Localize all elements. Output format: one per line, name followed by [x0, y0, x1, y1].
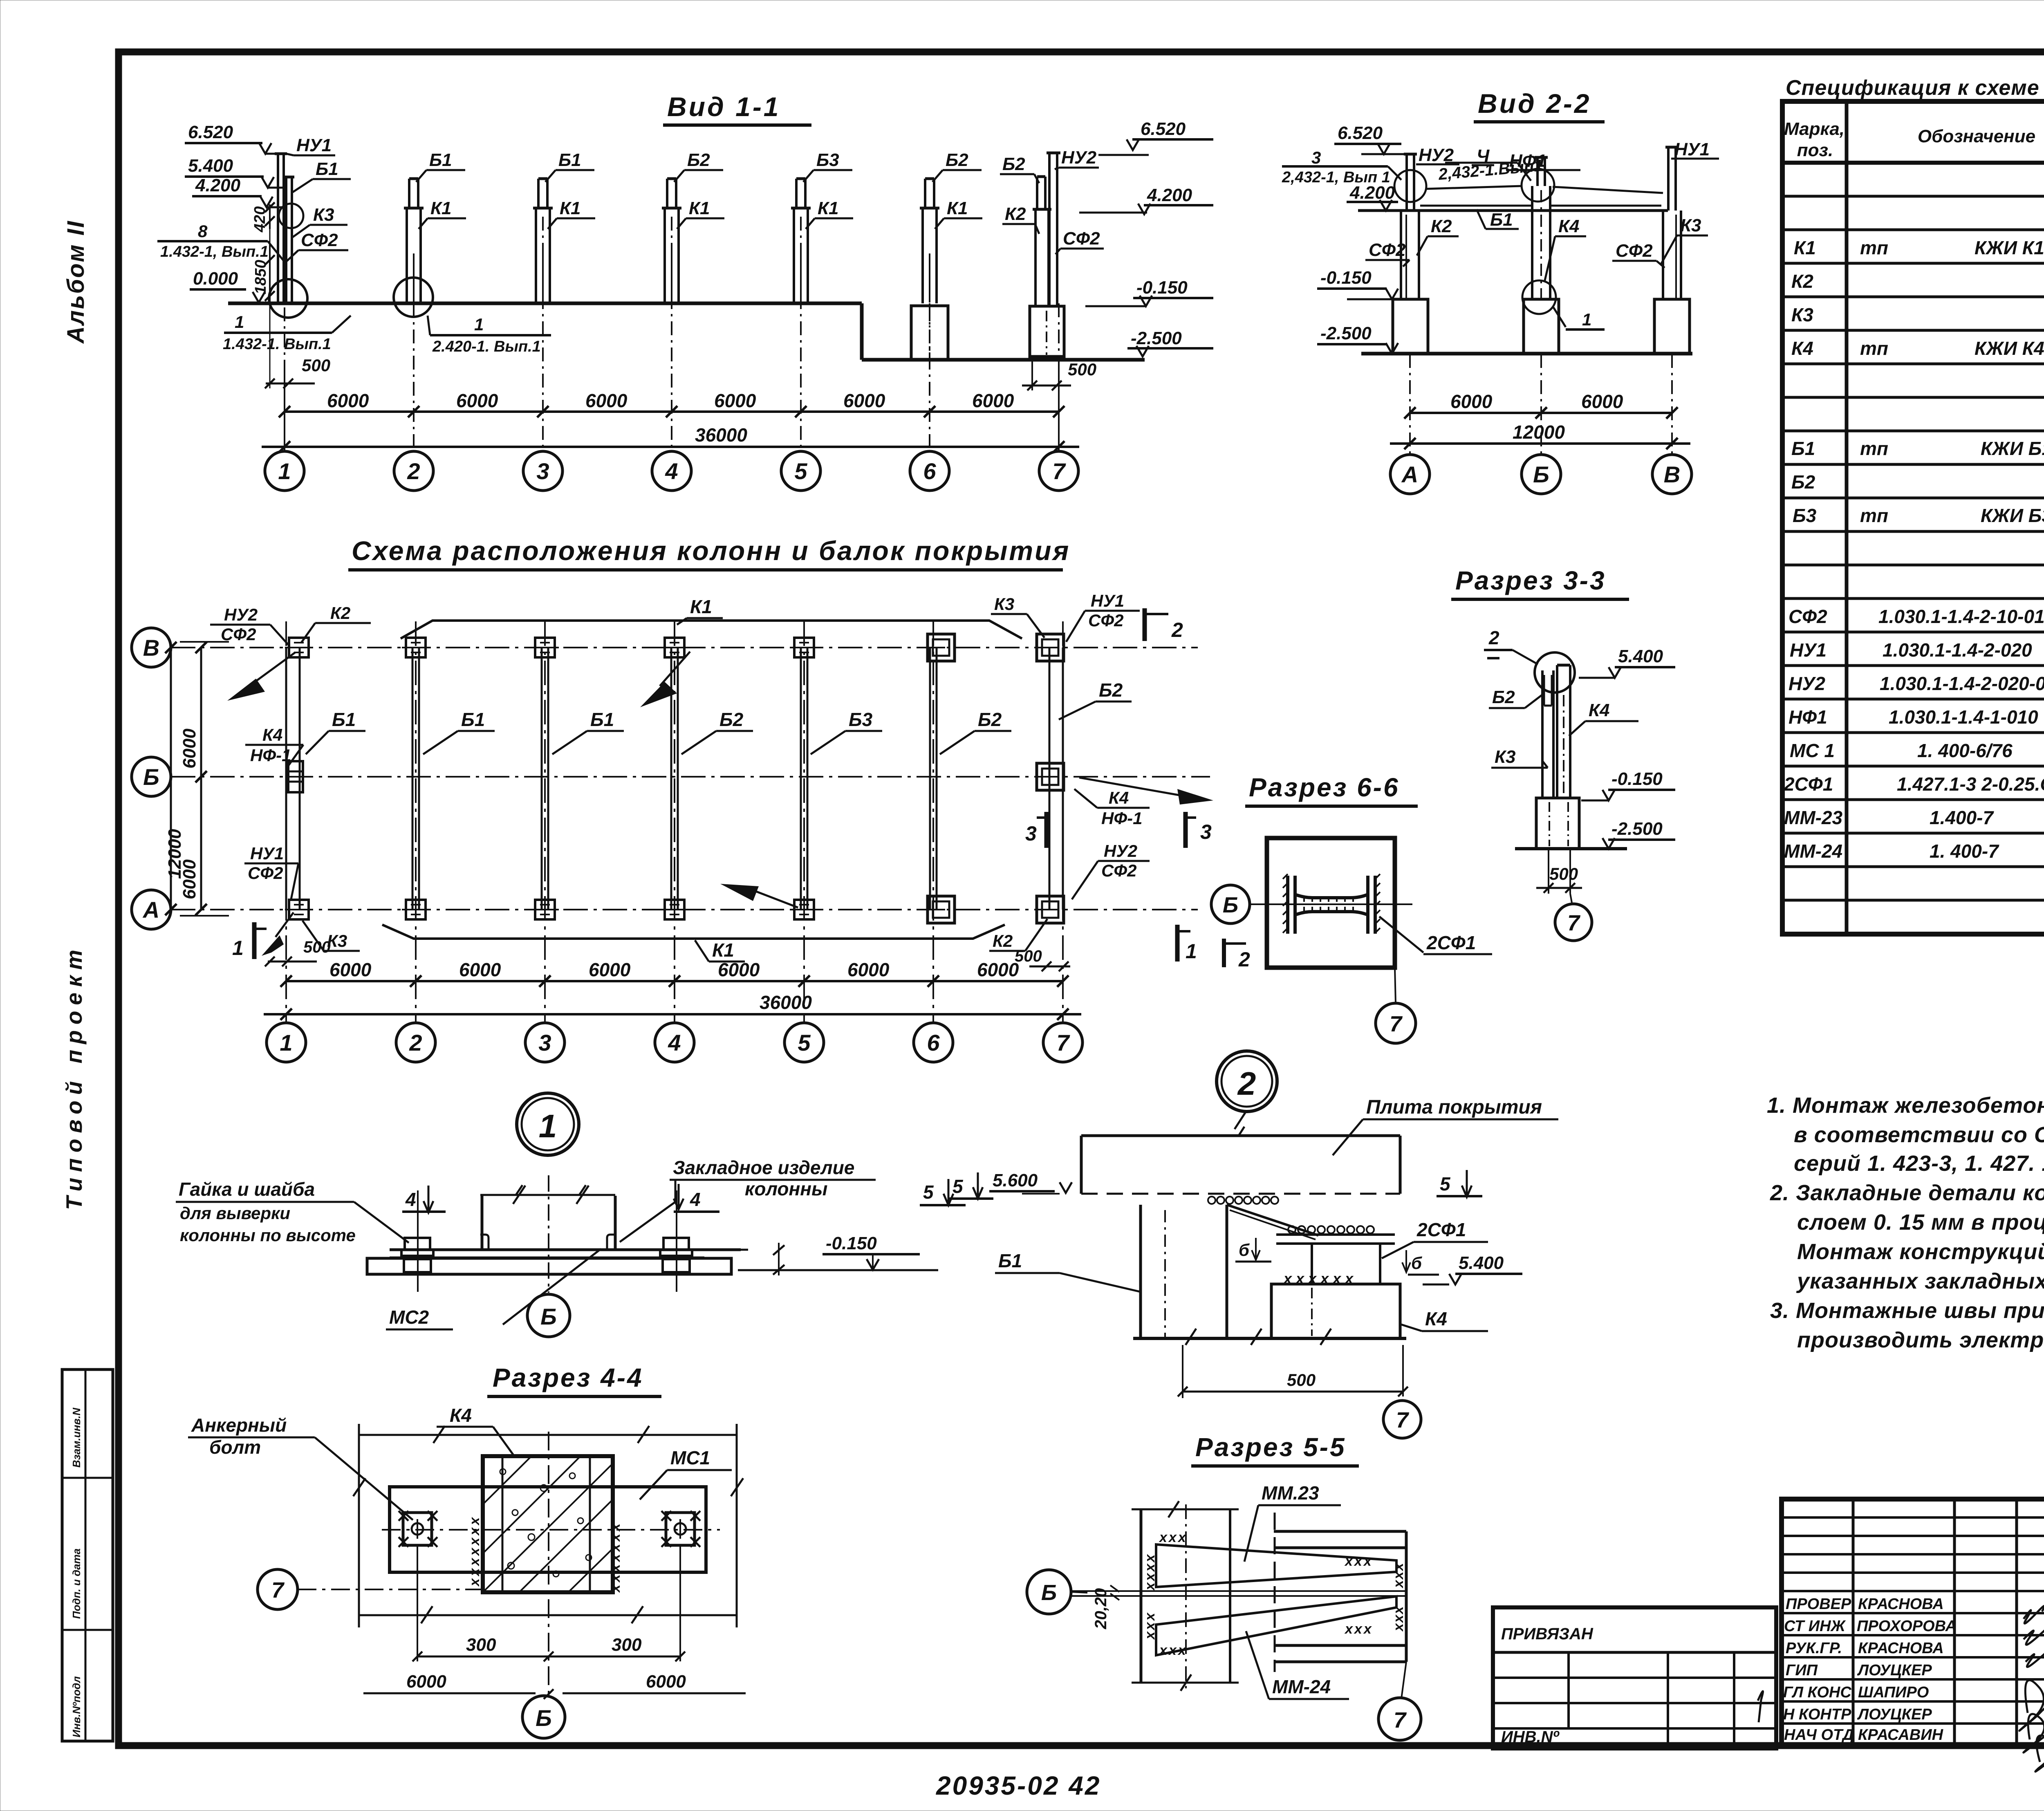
base line	[1133, 1337, 1406, 1340]
grid circles	[1390, 455, 1692, 494]
7 circle + leader	[258, 1569, 298, 1609]
svg-text:НУ1: НУ1	[1674, 139, 1710, 159]
svg-text:Б3: Б3	[849, 709, 873, 730]
SPEC TABLE	[1782, 76, 2044, 934]
svg-text:Б2: Б2	[687, 150, 710, 170]
weld circles on plate	[1288, 1226, 1374, 1233]
svg-text:2СФ1: 2СФ1	[1784, 773, 1833, 795]
signature texts	[1783, 1596, 1957, 1744]
NODE 1	[176, 1093, 966, 1337]
ground line upper	[228, 302, 862, 305]
svg-text:Б3: Б3	[816, 150, 839, 170]
svg-text:ММ-24: ММ-24	[1272, 1676, 1331, 1697]
svg-text:НУ1: НУ1	[1091, 591, 1124, 610]
VIEW 2-2	[1282, 88, 1719, 494]
svg-text:1: 1	[232, 937, 244, 959]
svg-text:СФ2: СФ2	[221, 625, 256, 644]
svg-text:Б: Б	[536, 1705, 552, 1731]
Б circle	[522, 1696, 565, 1738]
left dims	[200, 648, 202, 910]
svg-text:В: В	[143, 635, 159, 661]
svg-text:КЖИ К1: КЖИ К1	[1975, 237, 2044, 258]
node circle col1 upper	[279, 204, 303, 228]
svg-text:СФ2: СФ2	[1101, 861, 1136, 880]
svg-text:300: 300	[612, 1635, 642, 1655]
svg-text:в соответствии со СНиП Ш-16-8: в соответствии со СНиП Ш-16-80 , указани…	[1794, 1123, 2044, 1147]
svg-text:К3: К3	[1791, 304, 1813, 325]
svg-text:6000: 6000	[847, 959, 890, 980]
svg-text:СФ2: СФ2	[1369, 240, 1406, 260]
svg-text:1: 1	[539, 1108, 557, 1144]
svg-text:К3: К3	[1495, 747, 1516, 767]
svg-text:6000: 6000	[718, 959, 760, 980]
body rows	[1784, 235, 2044, 862]
svg-text:6.520: 6.520	[1141, 119, 1186, 139]
ground step	[860, 303, 864, 360]
svg-text:1. Монтаж железобетонных конс: 1. Монтаж железобетонных конструкций осу…	[1767, 1093, 2044, 1118]
pedestals	[1393, 299, 1428, 354]
svg-text:Б: Б	[1533, 462, 1549, 487]
column Б (К4)	[1532, 157, 1550, 299]
svg-text:1.030.1-1.4-1-010: 1.030.1-1.4-1-010	[1889, 706, 2038, 728]
svg-text:Б2: Б2	[719, 709, 744, 730]
svg-text:Схема расположения колонн и: Схема расположения колонн и балок покрыт…	[352, 536, 1070, 566]
7 circle	[1383, 1401, 1421, 1438]
svg-text:xxx: xxx	[1142, 1611, 1158, 1640]
svg-text:Б1: Б1	[1791, 438, 1815, 459]
labels top-left	[221, 603, 350, 644]
svg-text:500: 500	[303, 938, 331, 956]
svg-text:ММ-24: ММ-24	[1784, 841, 1842, 862]
svg-text:серий 1. 423-3, 1. 427. 1-: серий 1. 423-3, 1. 427. 1-3	[1794, 1151, 2044, 1176]
box	[1267, 838, 1395, 968]
svg-text:1.432-1, Вып.1: 1.432-1, Вып.1	[160, 243, 269, 260]
column strip	[1140, 1509, 1143, 1683]
node marker 1 (double circle)	[517, 1093, 579, 1155]
MC1 plate	[390, 1487, 706, 1572]
svg-text:-0.150: -0.150	[1611, 769, 1663, 789]
node marker 2 (double circle)	[1217, 1051, 1277, 1112]
column В (К3)	[1663, 147, 1681, 299]
svg-text:МС1: МС1	[670, 1447, 710, 1468]
fake signatures	[2019, 1606, 2044, 1772]
svg-text:тп: тп	[1860, 505, 1888, 526]
section markers	[232, 608, 1250, 971]
svg-text:7: 7	[1056, 1030, 1070, 1056]
svg-text:ГЛ КОНС.: ГЛ КОНС.	[1783, 1684, 1856, 1701]
svg-text:3: 3	[1025, 822, 1037, 845]
svg-text:Разрез 4-4: Разрез 4-4	[493, 1363, 643, 1392]
dims	[1410, 412, 1672, 414]
xxx edge marks	[467, 1515, 623, 1593]
svg-text:болт: болт	[209, 1437, 261, 1458]
svg-text:-2.500: -2.500	[1131, 328, 1182, 348]
svg-text:3: 3	[1311, 148, 1321, 167]
slab	[1081, 1134, 1400, 1137]
svg-text:1: 1	[1582, 310, 1591, 329]
MM-23 trapezoid (upper)	[1156, 1544, 1396, 1587]
svg-text:2: 2	[1171, 619, 1183, 641]
svg-text:12000: 12000	[1513, 421, 1565, 443]
svg-text:6000: 6000	[327, 390, 369, 411]
svg-text:К1: К1	[560, 198, 581, 218]
svg-text:К2: К2	[993, 931, 1013, 950]
svg-text:Подп. и дата: Подп. и дата	[70, 1549, 83, 1619]
svg-text:СФ2: СФ2	[1088, 611, 1123, 630]
svg-text:Б: Б	[1223, 893, 1238, 917]
7 circle	[1395, 968, 1396, 1003]
svg-text:СФ2: СФ2	[301, 230, 338, 250]
column 7 (К2 + НУ2 post)	[1033, 153, 1060, 306]
svg-text:К3: К3	[994, 594, 1014, 614]
hatch ticks on flanges	[1283, 874, 1380, 933]
svg-text:НФ1: НФ1	[1788, 706, 1827, 728]
svg-text:1.030.1-1.4-2-020: 1.030.1-1.4-2-020	[1883, 639, 2032, 661]
svg-text:Типовой проект: Типовой проект	[61, 944, 87, 1210]
column outline with break marks	[481, 1196, 484, 1250]
svg-text:12000: 12000	[165, 829, 185, 879]
svg-text:6000: 6000	[646, 1672, 686, 1692]
svg-text:б: б	[1411, 1253, 1422, 1273]
svg-text:3. Монтажные швы принимать: 3. Монтажные швы принимать hш = 6 мм. Св…	[1770, 1298, 2044, 1323]
ground line lower	[862, 358, 1145, 362]
svg-text:Закладное изделие: Закладное изделие	[673, 1157, 854, 1178]
svg-text:6000: 6000	[1581, 391, 1623, 412]
svg-text:ПРИВЯЗАН: ПРИВЯЗАН	[1501, 1625, 1594, 1643]
column К1 axis2	[404, 179, 424, 303]
node circle col1 lower	[269, 279, 307, 318]
grid axis vertical dash-dot lines	[286, 621, 1063, 1022]
svg-text:Инв.Nºподл: Инв.Nºподл	[70, 1676, 83, 1737]
svg-text:2СФ1: 2СФ1	[1416, 1219, 1466, 1240]
svg-text:Б2: Б2	[1099, 679, 1123, 701]
header texts	[1784, 119, 2044, 161]
svg-text:К4: К4	[1791, 338, 1813, 359]
axis dash-dot lines	[285, 217, 1059, 450]
svg-text:20935-02 42: 20935-02 42	[936, 1771, 1101, 1800]
grid circles	[267, 1023, 1083, 1062]
svg-text:5: 5	[953, 1176, 964, 1197]
svg-text:для выверки: для выверки	[180, 1204, 290, 1223]
svg-text:Б2: Б2	[1791, 471, 1815, 493]
svg-text:К1: К1	[818, 198, 839, 218]
svg-text:НУ2: НУ2	[1788, 673, 1825, 694]
svg-text:Б1: Б1	[429, 150, 452, 170]
axis lines to circles	[1410, 354, 1672, 454]
left part: privyazan	[1493, 1607, 1776, 1748]
svg-text:6000: 6000	[1450, 391, 1493, 412]
svg-text:КРАСНОВА: КРАСНОВА	[1858, 1596, 1944, 1613]
column A	[1401, 154, 1419, 299]
К1 bracket top	[401, 621, 1022, 639]
svg-text:К4: К4	[1109, 788, 1129, 807]
svg-text:МС 1: МС 1	[1790, 740, 1835, 761]
svg-text:Б2: Б2	[1492, 687, 1515, 707]
svg-text:Б: Б	[1041, 1580, 1057, 1605]
row circles	[132, 628, 171, 929]
svg-text:2: 2	[1488, 627, 1499, 648]
svg-text:НФ-1: НФ-1	[1101, 809, 1142, 828]
svg-text:1: 1	[474, 315, 484, 334]
svg-text:К1: К1	[712, 939, 734, 961]
svg-text:4.200: 4.200	[1349, 183, 1395, 203]
bottom-left mini table	[62, 1369, 113, 1741]
svg-text:-2.500: -2.500	[1611, 819, 1663, 839]
svg-text:К4: К4	[262, 725, 282, 744]
svg-text:-0.150: -0.150	[826, 1233, 877, 1253]
svg-text:К2: К2	[1431, 216, 1452, 236]
svg-text:тп: тп	[1860, 237, 1888, 258]
svg-text:7: 7	[1396, 1408, 1410, 1432]
row Б specials	[288, 761, 303, 792]
svg-text:б: б	[1239, 1240, 1250, 1260]
pedestal	[1536, 798, 1579, 849]
svg-text:К1: К1	[690, 596, 712, 617]
xxx marks	[1283, 1270, 1354, 1287]
svg-text:НФ1: НФ1	[1509, 151, 1546, 171]
svg-text:-2.500: -2.500	[1320, 323, 1372, 343]
svg-text:2: 2	[407, 458, 420, 484]
extension verticals	[284, 360, 285, 451]
svg-text:ПРОХОРОВА: ПРОХОРОВА	[1857, 1618, 1957, 1635]
dimension row 1	[285, 410, 1059, 413]
svg-text:производить электродами типа: производить электродами типа Э42 ГОСТ 94…	[1797, 1328, 2044, 1352]
svg-text:2. Закладные детали колонн, ба: 2. Закладные детали колонн, балок должны…	[1770, 1181, 2044, 1205]
pedestal col 6	[911, 306, 948, 360]
corner angles	[480, 1235, 542, 1250]
node circles	[1394, 170, 1426, 202]
svg-text:РУК.ГР.: РУК.ГР.	[1786, 1640, 1842, 1657]
column 1 fachwerk posts	[275, 154, 294, 303]
weld circles	[1208, 1197, 1278, 1204]
svg-text:К2: К2	[330, 603, 350, 623]
svg-text:НУ1: НУ1	[250, 844, 284, 863]
svg-text:Монтаж конструкций без оцин: Монтаж конструкций без оцинкованого покр…	[1797, 1239, 2044, 1264]
svg-text:СФ2: СФ2	[248, 863, 283, 883]
beam line	[1358, 209, 1668, 212]
svg-text:4.200: 4.200	[195, 175, 241, 195]
svg-text:К4: К4	[1589, 700, 1610, 720]
svg-text:К3: К3	[1680, 215, 1701, 235]
mid split lines	[1070, 1590, 1406, 1592]
svg-text:6000: 6000	[329, 959, 372, 980]
svg-text:Плита покрытия: Плита покрытия	[1366, 1096, 1542, 1118]
svg-text:КРАСНОВА: КРАСНОВА	[1858, 1640, 1944, 1657]
svg-text:Б1: Б1	[316, 159, 338, 179]
svg-text:Б1: Б1	[590, 709, 614, 730]
svg-text:К1: К1	[1794, 237, 1816, 258]
svg-text:поз.: поз.	[1797, 140, 1833, 160]
svg-text:20,20: 20,20	[1092, 1588, 1110, 1629]
Б circle	[527, 1294, 570, 1337]
svg-text:1850: 1850	[252, 260, 269, 294]
svg-text:К2: К2	[1005, 204, 1026, 224]
svg-text:3: 3	[1200, 820, 1212, 843]
svg-text:1.030.1-1.4-2-020-01: 1.030.1-1.4-2-020-01	[1880, 673, 2044, 694]
concrete dots	[500, 1469, 592, 1577]
svg-text:тп: тп	[1860, 438, 1888, 459]
x marks	[1142, 1530, 1406, 1658]
svg-text:К2: К2	[1791, 271, 1813, 292]
SECTION 4-4	[188, 1363, 746, 1738]
svg-text:6000: 6000	[972, 390, 1014, 411]
table outer border	[1782, 101, 2044, 934]
svg-text:6000: 6000	[179, 728, 199, 769]
svg-text:Спецификация к схеме расположе: Спецификация к схеме расположения колонн…	[1786, 76, 2044, 100]
svg-text:xxxxxxx: xxxxxxx	[607, 1521, 623, 1593]
svg-text:К3: К3	[313, 205, 334, 225]
svg-text:6: 6	[923, 458, 936, 484]
svg-text:xxx: xxx	[1391, 1605, 1406, 1632]
base plate	[390, 1248, 741, 1251]
svg-text:2.420-1. Вып.1: 2.420-1. Вып.1	[432, 338, 541, 355]
svg-text:500: 500	[1549, 864, 1578, 883]
svg-text:КЖИ Б1: КЖИ Б1	[1981, 438, 2044, 459]
svg-text:Б2: Б2	[946, 150, 968, 170]
signature rows	[1782, 1612, 2044, 1614]
svg-text:Б1: Б1	[998, 1250, 1022, 1271]
svg-text:Разрез 6-6: Разрез 6-6	[1249, 773, 1400, 802]
svg-text:500: 500	[1068, 360, 1096, 379]
svg-text:Б2: Б2	[978, 709, 1002, 730]
svg-text:4: 4	[405, 1189, 416, 1210]
concrete column hatched	[483, 1456, 613, 1592]
svg-text:В: В	[1664, 462, 1680, 487]
row lines	[1782, 195, 2044, 198]
center axis	[548, 1175, 549, 1293]
svg-text:СФ2: СФ2	[1063, 229, 1100, 249]
NOTES	[1767, 1093, 2044, 1352]
svg-text:Взам.инв.N: Взам.инв.N	[70, 1408, 83, 1468]
beam Б1	[1139, 1205, 1142, 1338]
svg-text:ММ-23: ММ-23	[1784, 807, 1843, 828]
svg-text:0.000: 0.000	[193, 269, 238, 289]
svg-text:500: 500	[1287, 1370, 1316, 1390]
label underlines + leaders	[286, 154, 1104, 262]
svg-text:Б2: Б2	[1002, 154, 1025, 174]
center lines	[382, 1529, 720, 1531]
TITLE BLOCK	[1493, 1499, 2044, 1772]
svg-text:А: А	[1401, 462, 1418, 487]
bottom extension	[359, 1614, 737, 1616]
sloped fachwerk top	[1425, 186, 1522, 189]
svg-text:Б: Б	[143, 764, 159, 790]
anchor bolts	[399, 1511, 437, 1547]
svg-text:2: 2	[1238, 948, 1250, 971]
svg-text:7: 7	[1394, 1708, 1407, 1733]
axis to circle	[1570, 894, 1572, 903]
svg-text:2: 2	[409, 1030, 422, 1056]
svg-text:Вид 2-2: Вид 2-2	[1478, 88, 1591, 119]
filled diamonds	[253, 652, 295, 684]
beam stub Б2	[1543, 675, 1545, 706]
svg-text:НФ-1: НФ-1	[250, 746, 291, 765]
svg-text:Разрез 5-5: Разрез 5-5	[1195, 1432, 1346, 1462]
svg-text:К4: К4	[1558, 216, 1580, 236]
svg-text:300: 300	[466, 1635, 496, 1655]
svg-text:ГИП: ГИП	[1786, 1662, 1818, 1679]
column squares row А	[285, 900, 313, 919]
signature table columns	[1852, 1499, 1855, 1746]
svg-text:-0.150: -0.150	[1136, 278, 1188, 298]
svg-text:1.432-1. Вып.1: 1.432-1. Вып.1	[223, 336, 331, 353]
svg-text:1.427.1-3 2-0.25.ОСБ: 1.427.1-3 2-0.25.ОСБ	[1897, 773, 2044, 795]
svg-text:ПРОВЕР: ПРОВЕР	[1786, 1596, 1851, 1613]
left margin labels	[61, 220, 113, 1741]
svg-text:xxx: xxx	[1344, 1553, 1373, 1569]
anchor bolt left	[401, 1190, 433, 1292]
column lines	[1845, 101, 1849, 934]
svg-text:Б3: Б3	[1793, 505, 1817, 526]
svg-text:7: 7	[1052, 458, 1066, 484]
svg-text:СТ ИНЖ: СТ ИНЖ	[1784, 1618, 1846, 1635]
svg-text:ЛОУЦКЕР: ЛОУЦКЕР	[1857, 1706, 1932, 1723]
svg-text:1. 400-6/76: 1. 400-6/76	[1917, 740, 2013, 761]
svg-text:6000: 6000	[406, 1672, 446, 1692]
SECTION 3-3	[1451, 566, 1675, 941]
svg-text:ЛОУЦКЕР: ЛОУЦКЕР	[1857, 1662, 1932, 1679]
svg-text:СФ2: СФ2	[1616, 241, 1653, 261]
svg-text:Анкерный: Анкерный	[191, 1414, 287, 1436]
svg-text:2: 2	[1237, 1065, 1256, 1102]
svg-text:3: 3	[538, 1030, 551, 1056]
svg-text:6000: 6000	[585, 390, 628, 411]
svg-text:5.400: 5.400	[1459, 1253, 1504, 1273]
side extension verticals	[358, 1424, 360, 1627]
svg-text:-0.150: -0.150	[1320, 268, 1372, 288]
svg-text:6000: 6000	[456, 390, 498, 411]
svg-text:ММ.23: ММ.23	[1262, 1482, 1319, 1504]
7 circle	[1401, 1662, 1406, 1699]
node label 1	[1553, 307, 1566, 327]
svg-text:Марка,: Марка,	[1784, 119, 1845, 139]
svg-text:ШАПИРО: ШАПИРО	[1858, 1684, 1929, 1701]
svg-text:3: 3	[536, 458, 549, 484]
header bottom	[1782, 161, 2044, 165]
Б circle + axis	[1211, 885, 1250, 923]
svg-text:СФ2: СФ2	[1788, 606, 1827, 627]
dimension row 2	[262, 446, 1079, 448]
svg-text:4.200: 4.200	[1147, 185, 1192, 205]
svg-text:5: 5	[794, 458, 807, 484]
svg-text:36000: 36000	[760, 992, 812, 1013]
column bars	[1541, 670, 1544, 798]
svg-text:Разрез 3-3: Разрез 3-3	[1455, 566, 1606, 595]
svg-text:6000: 6000	[977, 959, 1019, 980]
svg-text:колонны: колонны	[745, 1178, 827, 1199]
column labels	[296, 135, 1100, 250]
svg-text:7: 7	[271, 1578, 285, 1603]
К1 bracket bottom	[382, 925, 1005, 939]
PLAN	[132, 536, 1250, 1062]
diagonal hatch	[483, 1456, 613, 1592]
svg-text:5.400: 5.400	[1618, 646, 1663, 666]
svg-text:8: 8	[198, 222, 208, 241]
svg-text:К1: К1	[430, 198, 452, 218]
svg-text:слоем 0. 15 мм в процессе: слоем 0. 15 мм в процессе изготовления.	[1797, 1210, 2044, 1235]
svg-text:А: А	[142, 897, 159, 923]
channel right	[1274, 1531, 1406, 1662]
svg-text:КЖИ К4: КЖИ К4	[1975, 338, 2044, 359]
bottom dims	[286, 980, 1063, 982]
svg-text:6000: 6000	[459, 959, 501, 980]
small dim ticks	[711, 1249, 748, 1251]
svg-text:указанных закладных деталей: указанных закладных деталей запрещается.	[1796, 1269, 2044, 1293]
svg-text:5.400: 5.400	[188, 156, 233, 176]
VIEW 1-1	[157, 92, 1213, 491]
svg-text:К1: К1	[947, 198, 968, 218]
NODE 2	[949, 1051, 1558, 1438]
